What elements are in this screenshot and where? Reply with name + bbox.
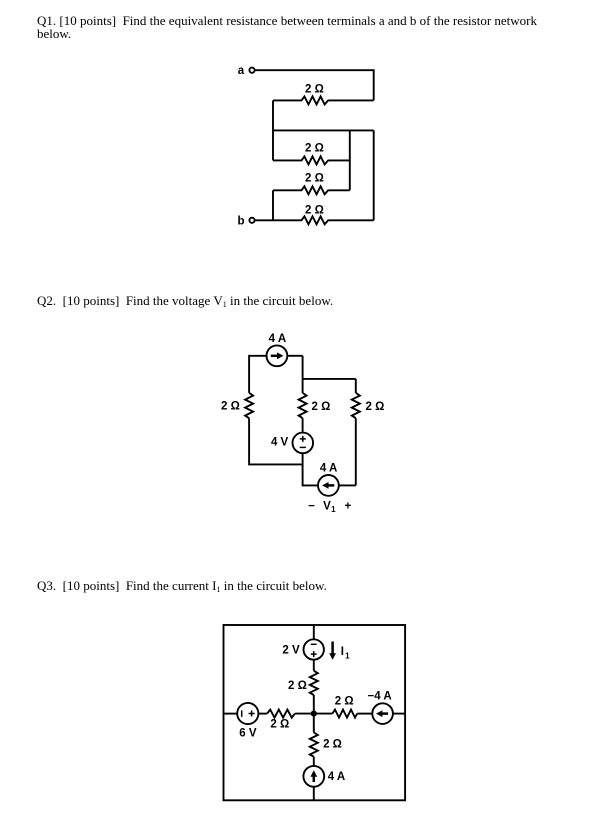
wire junction bus to right branch — [303, 378, 356, 380]
svg-text:−: − — [308, 500, 315, 512]
svg-text:b: b — [237, 216, 244, 228]
Q3 heading — [37, 579, 327, 596]
resistor R1 2ohm (top) — [273, 96, 374, 104]
node a terminal circle — [249, 68, 254, 73]
wire -4A source to box right edge — [393, 713, 405, 715]
wire top rail left of source — [249, 356, 266, 393]
wire 2V source to top resistor — [313, 660, 315, 671]
wire bottom rail right of source — [339, 484, 356, 486]
wire top resistor to center node — [313, 695, 315, 714]
svg-text:1: 1 — [331, 505, 336, 514]
resistor 2ohm left branch (horizontal) — [267, 710, 295, 718]
arrow inside top current source — [271, 355, 278, 358]
center node junction dot — [311, 711, 317, 717]
wire right vertical below resistor to bottom rail — [355, 418, 357, 485]
svg-text:4 A: 4 A — [320, 462, 337, 474]
wire from a to top-right corner and down to R1 right end — [255, 70, 374, 100]
svg-text:4 V: 4 V — [271, 437, 289, 449]
plus sign inside 2V source (bottom) — [311, 651, 317, 657]
resistor 2ohm bottom branch (vertical) — [310, 733, 318, 757]
outer box — [224, 625, 406, 800]
svg-text:2 Ω: 2 Ω — [365, 401, 384, 413]
resistor R4 2ohm on b rail — [255, 216, 374, 224]
svg-text:4 A: 4 A — [269, 333, 286, 345]
wire from box top down to 2V source — [313, 625, 315, 639]
svg-text:2 Ω: 2 Ω — [270, 718, 289, 730]
current I1 arrow (down) — [331, 642, 334, 654]
wire middle vertical from top rail to resistor — [302, 356, 304, 393]
wire center node to bottom resistor — [313, 714, 315, 733]
svg-text:2 Ω: 2 Ω — [305, 84, 324, 96]
svg-text:2 Ω: 2 Ω — [305, 172, 324, 184]
svg-text:2 Ω: 2 Ω — [221, 400, 240, 412]
svg-text:1: 1 — [345, 651, 350, 660]
svg-text:2 Ω: 2 Ω — [335, 695, 354, 707]
wire right resistor to -4A source — [357, 713, 372, 715]
svg-text:−4 A: −4 A — [368, 690, 392, 702]
wire below 4V source down to bottom rail — [303, 453, 318, 485]
Q1 heading — [37, 14, 537, 40]
svg-text:+: + — [344, 500, 351, 512]
current source 4A circle (bottom branch) — [303, 766, 324, 787]
wire inner vertical from bus down to R3 right end — [349, 130, 351, 190]
svg-text:V: V — [323, 500, 331, 512]
voltage source 6V circle — [237, 703, 258, 724]
svg-text:2 Ω: 2 Ω — [305, 142, 324, 154]
wire right vertical from junction bus to resistor — [355, 379, 357, 393]
current source -4A circle — [372, 703, 393, 724]
wire center node to right resistor — [314, 713, 333, 715]
svg-text:2 V: 2 V — [282, 644, 300, 656]
minus bar inside 6V source (left) — [241, 710, 243, 716]
resistor 2ohm left (vertical) — [245, 393, 253, 418]
svg-text:2 Ω: 2 Ω — [305, 204, 324, 216]
plus sign inside 4V source — [300, 436, 306, 442]
svg-text:2 Ω: 2 Ω — [323, 739, 342, 751]
arrow inside bottom current source (pointing left) — [328, 484, 334, 487]
svg-text:4 A: 4 A — [328, 771, 345, 783]
svg-text:2 Ω: 2 Ω — [288, 680, 307, 692]
resistor R3 2ohm — [273, 186, 350, 194]
wire 6V source to left resistor — [258, 713, 267, 715]
svg-text:a: a — [238, 65, 245, 77]
svg-text:6 V: 6 V — [239, 728, 257, 740]
wire from R3 left end down to b rail — [272, 190, 274, 220]
current source 4A circle (bottom) — [318, 475, 339, 496]
wire right vertical from bus down to b rail — [373, 130, 375, 220]
minus sign inside 4V source — [300, 446, 306, 448]
wire bottom resistor to 4A source — [313, 757, 315, 766]
resistor 2ohm right branch (horizontal) — [332, 710, 357, 718]
wire top rail right of source — [287, 355, 302, 357]
current source I1 4A circle (top) — [267, 345, 288, 366]
resistor 2ohm right (vertical) — [352, 393, 360, 418]
wire middle resistor to 4V source — [302, 418, 304, 433]
svg-text:I: I — [341, 646, 344, 658]
Q2 heading — [37, 294, 333, 311]
voltage source 4V circle — [293, 433, 314, 454]
node b terminal circle — [249, 218, 254, 223]
wire left vertical below resistor to bottom-left rail, then right — [249, 418, 303, 464]
arrow inside -4A source (pointing left) — [382, 712, 388, 715]
wire 4A source to box bottom edge — [313, 787, 315, 801]
wire left vertical from R1 left end down to R2 left end — [272, 100, 274, 160]
arrow inside 4A source (pointing up) — [313, 776, 316, 782]
wire left resistor to center node — [295, 713, 314, 715]
plus sign inside 6V source (right) — [249, 711, 255, 717]
wire box left edge to 6V source — [224, 713, 238, 715]
voltage source 2V circle — [304, 639, 324, 659]
resistor R2 2ohm — [273, 156, 350, 164]
resistor 2ohm middle (vertical) — [299, 393, 307, 418]
resistor 2ohm top branch (vertical) — [310, 671, 318, 695]
wire horizontal bus — [273, 129, 374, 131]
minus sign inside 2V source (top) — [311, 643, 317, 645]
svg-text:2 Ω: 2 Ω — [311, 401, 330, 413]
